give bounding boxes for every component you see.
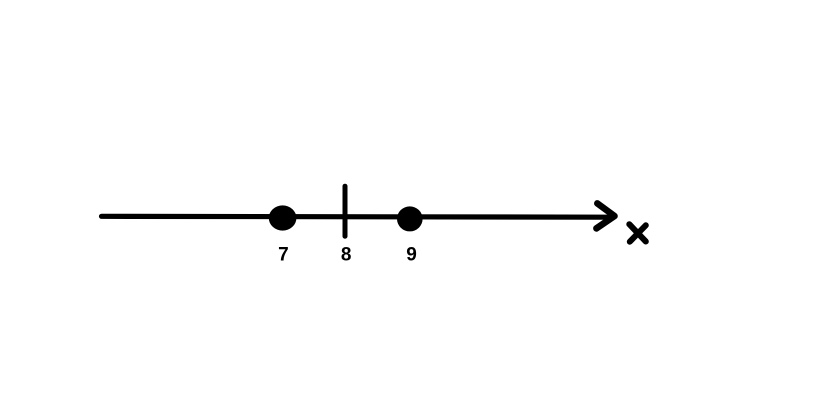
closed point at 7 [269,205,297,230]
closed point at 9 [397,206,423,231]
svg-text:8: 8 [341,244,352,265]
number line [102,214,614,220]
axis label x [629,224,646,242]
svg-text:9: 9 [406,244,417,265]
svg-text:7: 7 [278,244,289,265]
arrowhead [596,203,614,228]
tick mark at 8 [343,186,348,236]
